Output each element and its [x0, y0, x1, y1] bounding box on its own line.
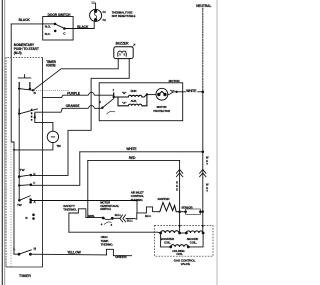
motor contact 1	[113, 92, 115, 98]
svg-text:COIL.: COIL.	[190, 240, 197, 244]
node junction TM/main	[13, 149, 15, 151]
svg-text:NEUTRAL: NEUTRAL	[196, 4, 211, 8]
label SECOND COIL.	[187, 237, 198, 244]
svg-text:"B": "B"	[122, 91, 127, 95]
svg-text:BLU.: BLU.	[115, 213, 121, 217]
node B2 (timer spare)	[32, 217, 35, 220]
sensor	[184, 209, 201, 215]
mechanical link dotted	[34, 90, 70, 92]
node white/neutral junction	[202, 151, 205, 154]
timer TW pivot 2	[18, 199, 21, 202]
svg-text:BLU.: BLU.	[145, 214, 151, 218]
centrifugal switch arm	[103, 218, 112, 220]
wire neutral vertical (solid)	[202, 92, 204, 212]
wire purple	[43, 92, 114, 97]
label WHITE (motor)	[186, 89, 198, 94]
svg-text:COIL: COIL	[176, 252, 183, 256]
motor pivot contact 2	[101, 107, 103, 109]
motor box	[99, 83, 183, 121]
node valve top neutral	[202, 225, 204, 227]
timer inner dashed vertical	[6, 58, 11, 267]
momentary start switch M-S push button actuator	[18, 75, 30, 88]
svg-text:SWITCH: SWITCH	[100, 207, 111, 211]
svg-text:TW: TW	[17, 203, 22, 207]
wire neutral dashed vertical	[202, 8, 204, 92]
label TIMER KNOB	[46, 60, 56, 68]
node sensor line / neutral	[202, 211, 204, 213]
node A upper	[29, 198, 32, 201]
svg-text:BUZZER: BUZZER	[116, 41, 129, 45]
motor run winding	[114, 94, 147, 97]
svg-text:THERMO.: THERMO.	[131, 198, 144, 202]
label SAFETY THERMO.	[63, 204, 77, 212]
page border right	[216, 0, 218, 285]
label WHITE (mid)	[126, 147, 137, 151]
wire booster to second coil	[180, 232, 187, 234]
connector plug (blu)	[120, 215, 126, 222]
label BOOSTER COIL.	[161, 237, 174, 244]
label RED vertical	[176, 180, 178, 191]
holding coil	[169, 245, 189, 249]
node igniter/red junction	[178, 210, 181, 213]
wire timer motor bottom to timer	[14, 143, 53, 150]
svg-text:BLACK: BLACK	[19, 18, 31, 22]
wire white mid line	[80, 151, 203, 153]
M-S upper contact right	[29, 87, 31, 89]
centrifugal switch contact 1	[102, 217, 105, 220]
wire protector to white	[168, 92, 183, 95]
svg-text:THERMO.: THERMO.	[63, 208, 77, 212]
svg-text:SENSOR: SENSOR	[181, 205, 192, 209]
svg-text:YELLOW: YELLOW	[67, 251, 81, 255]
wire valve feed line (from safety thermo)	[69, 231, 161, 234]
gas control valve box (dashed)	[155, 225, 213, 256]
svg-text:TM: TM	[56, 144, 61, 148]
M-S gang link bar	[31, 109, 33, 121]
svg-text:BLU.: BLU.	[127, 219, 133, 223]
label MOMENTARY PUSH TO START (M-S)	[14, 43, 39, 55]
M-S upper arm	[19, 89, 33, 91]
wire E line	[31, 174, 68, 176]
timer TW pivot 1b	[18, 184, 20, 186]
svg-text:N.C.: N.C.	[45, 32, 51, 36]
svg-text:THERMO.: THERMO.	[101, 243, 114, 247]
wire sensor to neutral vertical	[200, 211, 202, 213]
svg-text:N.O.: N.O.	[45, 25, 51, 29]
wire H out to yellow	[30, 253, 106, 256]
label THERMAL FUSE NOT RESETTABLE	[112, 11, 136, 18]
svg-text:VALVE: VALVE	[181, 262, 190, 266]
wire door switch to thermal fuse	[64, 22, 94, 29]
node B (M-S arm)	[32, 89, 34, 91]
wire holding coil left link	[161, 233, 171, 247]
wire into door switch	[43, 23, 55, 25]
centrifugal hook	[104, 222, 112, 225]
svg-text:"A": "A"	[122, 101, 127, 105]
timer arm pivot2	[19, 196, 30, 201]
centrifugal switch contact 2	[111, 217, 114, 220]
node motor windings junction	[146, 93, 148, 95]
timer H contact	[29, 253, 32, 256]
wire red into valve	[179, 212, 181, 233]
wire holding coil right link	[188, 233, 203, 247]
node neutral/motor junction	[202, 91, 205, 94]
wire red right vertical to igniter line	[179, 160, 181, 211]
wire M-S left contact down to timer contacts	[18, 89, 20, 201]
svg-text:PROTECTOR: PROTECTOR	[153, 109, 170, 113]
wire buzzer terminal 2 down-left	[68, 59, 129, 176]
buzzer	[114, 41, 135, 58]
label MOTOR PROTECTOR	[153, 105, 170, 113]
label WHT vertical upper	[206, 155, 209, 166]
wire to sensor	[180, 211, 186, 213]
door switch S1 box	[43, 17, 73, 41]
svg-text:PURPLE: PURPLE	[67, 92, 81, 96]
connector plug (red)	[176, 170, 182, 177]
svg-text:IGNITER: IGNITER	[158, 197, 171, 201]
label AIR INLET CONTROL THERMO.	[131, 191, 145, 202]
wire safety thermo down to valve line	[68, 213, 70, 232]
svg-text:AUX.: AUX.	[131, 99, 138, 103]
svg-text:RED: RED	[129, 156, 136, 160]
label BLACK (right)	[77, 24, 89, 28]
wire to protector	[147, 94, 156, 96]
M-S lower arm	[19, 109, 37, 114]
timer TW pivot 1	[18, 175, 21, 178]
page border left	[2, 0, 5, 285]
node F	[30, 183, 33, 186]
svg-text:NOT RESETTABLE: NOT RESETTABLE	[112, 14, 136, 18]
door switch N.C. contact	[54, 30, 57, 33]
svg-text:KNOB: KNOB	[46, 64, 56, 68]
svg-text:WHITE: WHITE	[186, 89, 197, 93]
booster coil	[159, 231, 181, 235]
door switch common contact C	[63, 27, 66, 30]
svg-text:F: F	[33, 181, 35, 185]
wire A line	[31, 201, 137, 213]
M-S lower contact left	[18, 109, 20, 115]
door switch N.O. contact	[54, 23, 57, 26]
svg-text:D: D	[176, 188, 178, 192]
wire orange	[35, 105, 103, 112]
motor centrifugal actuator hook	[107, 111, 116, 114]
connector plug (neutral)	[200, 170, 206, 177]
wire L feed	[14, 253, 19, 255]
svg-text:TIMER: TIMER	[19, 274, 31, 278]
thermal fuse F1-F2	[90, 9, 102, 21]
wire white (motor to neutral)	[183, 91, 203, 93]
label WHT vertical lower	[206, 182, 209, 193]
door switch arm	[55, 24, 64, 29]
motor aux winding	[118, 94, 147, 105]
label MOTOR CENTRIFUGAL SWITCH	[100, 200, 119, 211]
svg-text:F1: F1	[103, 10, 107, 14]
wire red line	[88, 159, 180, 161]
svg-text:BLACK: BLACK	[77, 25, 89, 29]
M-S lower contact right	[34, 113, 36, 119]
high temp thermostat	[106, 249, 131, 255]
node valve top red	[179, 225, 181, 227]
label GAS CONTROL VALVE	[174, 259, 196, 267]
wire to connector	[112, 217, 119, 219]
safety thermostat	[69, 209, 103, 218]
svg-text:ORANGE: ORANGE	[66, 104, 81, 108]
svg-text:GREEN: GREEN	[115, 255, 127, 259]
svg-text:WHITE: WHITE	[126, 147, 137, 151]
second coil	[185, 231, 205, 235]
timer arm to F	[19, 184, 31, 187]
motor protector	[156, 88, 168, 100]
svg-text:BRN.: BRN.	[88, 214, 95, 218]
svg-text:F2: F2	[103, 18, 107, 22]
svg-text:MOTOR: MOTOR	[169, 79, 181, 83]
label HOLDING COIL	[172, 249, 184, 256]
wire F line to white vertical	[31, 152, 80, 186]
node B1 (timer spare)	[32, 214, 35, 217]
label HIGH TEMP. THERMO.	[101, 235, 114, 247]
wire lower contact to timer motor	[35, 117, 53, 131]
timer L contact	[18, 253, 21, 256]
svg-text:TW: TW	[20, 168, 25, 172]
node C out	[175, 91, 177, 93]
wire main left vertical	[11, 24, 14, 254]
wire fuse to L1	[95, 3, 97, 9]
node E	[30, 174, 33, 177]
svg-text:(M-S): (M-S)	[14, 51, 22, 55]
igniter element	[158, 202, 180, 211]
wire red left vertical to safety thermo line	[87, 160, 89, 217]
svg-text:L1: L1	[92, 0, 96, 4]
svg-text:COIL.: COIL.	[164, 240, 171, 244]
air inlet control thermostat	[146, 207, 157, 213]
timer arm to E	[19, 175, 31, 177]
wire neutral into valve	[202, 212, 204, 233]
timer L-H arm	[19, 250, 31, 254]
M-S upper contact left	[18, 87, 20, 89]
wire buzzer terminal 1 to M-S switch	[33, 59, 118, 91]
node A lower	[29, 201, 32, 204]
svg-text:RUN: RUN	[131, 89, 137, 93]
wire L1 black feed (top horizontal)	[11, 23, 43, 25]
wire blu to air inlet thermo	[126, 213, 146, 219]
timer motor TM	[47, 131, 58, 142]
motor switch arm	[102, 99, 113, 108]
svg-text:DOOR SWITCH: DOOR SWITCH	[48, 13, 71, 17]
timer box (dashed)	[6, 57, 43, 267]
svg-text:L: L	[13, 247, 15, 251]
